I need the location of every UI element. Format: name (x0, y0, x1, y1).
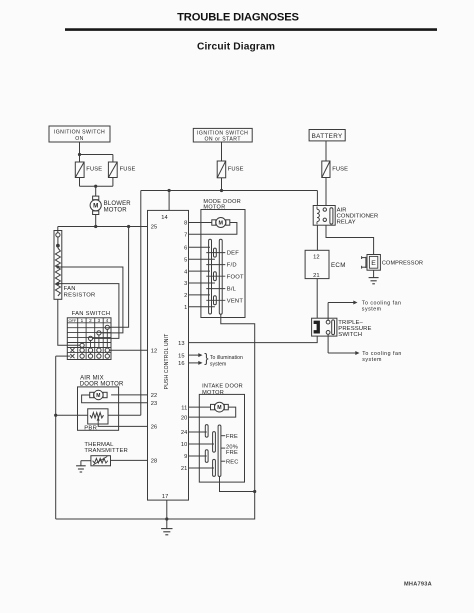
svg-text:20: 20 (181, 415, 188, 421)
svg-text:MHA793A: MHA793A (404, 582, 432, 588)
svg-text:INTAKE DOOR: INTAKE DOOR (202, 384, 243, 390)
svg-text:FAN SWITCH: FAN SWITCH (72, 311, 111, 317)
svg-text:2: 2 (184, 293, 187, 299)
svg-text:COMPRESSOR: COMPRESSOR (382, 261, 423, 267)
svg-text:F/D: F/D (227, 263, 237, 269)
svg-text:5: 5 (184, 257, 187, 263)
svg-text:12: 12 (313, 254, 320, 260)
svg-text:2: 2 (89, 318, 92, 323)
svg-text:11: 11 (181, 405, 187, 411)
svg-text:M: M (96, 393, 100, 399)
svg-text:FRE: FRE (226, 450, 238, 456)
svg-text:B/L: B/L (227, 287, 237, 293)
svg-text:SWITCH: SWITCH (338, 332, 362, 338)
svg-text:FOOT: FOOT (227, 274, 244, 280)
svg-text:10: 10 (181, 442, 188, 448)
svg-text:}: } (204, 351, 209, 366)
svg-text:FUSE: FUSE (120, 167, 136, 173)
svg-text:23: 23 (151, 401, 158, 407)
svg-text:12: 12 (151, 348, 158, 354)
svg-text:TROUBLE DIAGNOSES: TROUBLE DIAGNOSES (177, 12, 299, 24)
svg-text:system: system (362, 357, 382, 363)
svg-text:4: 4 (106, 318, 109, 323)
svg-text:M: M (93, 203, 98, 210)
svg-text:9: 9 (184, 454, 187, 460)
svg-text:RESISTOR: RESISTOR (64, 292, 96, 298)
svg-text:system: system (210, 361, 226, 367)
svg-text:VENT: VENT (227, 298, 244, 304)
svg-text:PBR: PBR (84, 426, 97, 432)
svg-text:FRE: FRE (226, 434, 238, 440)
svg-text:21: 21 (313, 273, 320, 279)
svg-text:BLOWER: BLOWER (104, 201, 132, 207)
svg-text:RELAY: RELAY (337, 220, 356, 226)
svg-text:4: 4 (184, 269, 187, 275)
svg-text:AIR MIX: AIR MIX (80, 375, 104, 381)
svg-text:1: 1 (184, 305, 187, 311)
svg-text:FUSE: FUSE (86, 167, 102, 173)
svg-text:DEF: DEF (227, 251, 239, 257)
svg-text:IGNITION SWITCH: IGNITION SWITCH (54, 129, 105, 135)
svg-text:28: 28 (151, 459, 158, 465)
svg-text:BATTERY: BATTERY (312, 133, 343, 140)
svg-text:3: 3 (184, 281, 187, 287)
svg-text:OFF: OFF (69, 318, 77, 323)
svg-text:system: system (362, 307, 382, 313)
svg-text:FUSE: FUSE (332, 166, 348, 172)
svg-text:ON: ON (75, 136, 84, 142)
svg-text:FAN: FAN (64, 286, 76, 292)
svg-text:THERMAL: THERMAL (84, 442, 114, 448)
svg-text:1: 1 (81, 318, 84, 323)
svg-text:REC: REC (226, 460, 239, 466)
svg-text:25: 25 (151, 225, 158, 231)
svg-text:6: 6 (184, 245, 187, 251)
svg-text:17: 17 (162, 494, 169, 500)
svg-text:14: 14 (161, 215, 168, 221)
svg-text:TRANSMITTER: TRANSMITTER (84, 448, 128, 454)
svg-text:Circuit Diagram: Circuit Diagram (197, 42, 275, 53)
svg-text:ECM: ECM (331, 262, 346, 269)
svg-text:PUSH CONTROL UNIT: PUSH CONTROL UNIT (164, 334, 170, 390)
svg-text:FUSE: FUSE (228, 166, 244, 172)
svg-text:13: 13 (178, 341, 185, 347)
svg-text:M: M (219, 220, 224, 226)
svg-text:E: E (371, 260, 376, 267)
svg-text:MOTOR: MOTOR (104, 208, 128, 214)
svg-text:ON or START: ON or START (204, 136, 241, 142)
svg-text:3: 3 (98, 318, 101, 323)
svg-text:To illumination: To illumination (210, 355, 243, 361)
svg-text:M: M (217, 405, 221, 411)
svg-text:22: 22 (151, 393, 158, 399)
svg-text:24: 24 (181, 430, 188, 436)
svg-text:26: 26 (151, 425, 158, 431)
svg-text:8: 8 (184, 221, 187, 227)
svg-text:16: 16 (178, 361, 185, 367)
svg-text:15: 15 (178, 353, 185, 359)
svg-text:21: 21 (181, 466, 188, 472)
svg-text:7: 7 (184, 232, 187, 238)
